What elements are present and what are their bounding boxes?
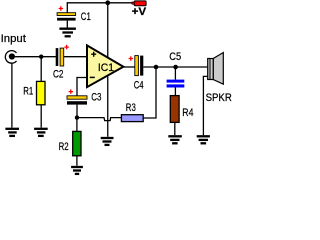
svg-text:C4: C4 <box>134 80 144 92</box>
svg-text:IC1: IC1 <box>98 62 114 74</box>
wire top supply rail <box>67 3 132 13</box>
resistor R4 <box>170 96 179 123</box>
ground under jack <box>5 129 19 136</box>
wire jack sleeve to ground <box>11 64 13 128</box>
ground under C1 <box>59 29 76 37</box>
wire junction to R1 <box>40 57 42 82</box>
ground under R4 <box>168 136 182 143</box>
capacitor C3 <box>67 96 87 105</box>
resistor R2 <box>73 131 81 155</box>
capacitor C4 <box>135 56 144 76</box>
svg-text:C5: C5 <box>169 51 181 63</box>
capacitor C2 <box>56 48 64 66</box>
svg-text:C3: C3 <box>91 91 101 103</box>
wire op-amp ground pin <box>107 76 109 137</box>
wire C4 to speaker <box>143 66 208 68</box>
svg-text:C1: C1 <box>81 11 91 23</box>
ground under R2 <box>71 167 83 174</box>
+V terminal <box>132 1 146 6</box>
resistor R3 <box>121 115 143 122</box>
node feedback junction <box>75 115 79 119</box>
node C5 junction <box>173 65 178 70</box>
speaker SPKR <box>208 53 224 85</box>
op-amp IC1 <box>87 45 123 87</box>
wire R1 to ground <box>40 105 42 128</box>
wire input to C2 <box>13 56 56 58</box>
op-amp + input mark <box>91 52 96 57</box>
wire R2 to ground <box>76 156 78 166</box>
C4 polarity + <box>129 56 133 60</box>
wire feedback from inverting input <box>77 78 87 96</box>
wire R3 to output node <box>143 67 156 118</box>
C1 polarity + <box>59 6 63 10</box>
resistor R1 <box>37 81 46 104</box>
wire +V drop to op-amp <box>107 3 109 57</box>
wire C1 to ground <box>66 21 68 28</box>
node input junction <box>39 55 43 59</box>
wire feedback horizontal with crossover notch <box>77 118 121 121</box>
svg-text:+V: +V <box>132 6 147 18</box>
wire C2 to op-amp <box>64 56 87 58</box>
capacitor C1 <box>57 13 76 21</box>
ground under IC1 <box>101 138 114 145</box>
ground under R1 <box>34 129 48 136</box>
wire junction to C5 <box>174 67 176 80</box>
svg-text:R2: R2 <box>59 141 69 153</box>
svg-text:R1: R1 <box>23 86 33 98</box>
svg-text:SPKR: SPKR <box>206 92 232 104</box>
capacitor C5 <box>167 80 185 88</box>
input jack J1 <box>5 51 16 64</box>
op-amp - input mark <box>90 76 95 78</box>
svg-text:R4: R4 <box>182 107 193 119</box>
ground under speaker <box>197 136 210 143</box>
C2 polarity + <box>64 45 68 49</box>
svg-text:Input: Input <box>1 33 26 45</box>
wire C5 to R4 <box>174 88 176 96</box>
wire speaker return <box>203 76 208 135</box>
wire junction to R2 <box>76 118 78 132</box>
wire C3 to junction <box>76 105 78 118</box>
wire R4 to ground <box>174 122 176 135</box>
C3 polarity + <box>69 89 73 93</box>
svg-text:R3: R3 <box>126 102 136 114</box>
svg-text:C2: C2 <box>53 68 64 80</box>
wire op-amp output to C4 <box>123 66 134 68</box>
node supply junction <box>105 0 110 5</box>
node output junction <box>154 65 159 70</box>
